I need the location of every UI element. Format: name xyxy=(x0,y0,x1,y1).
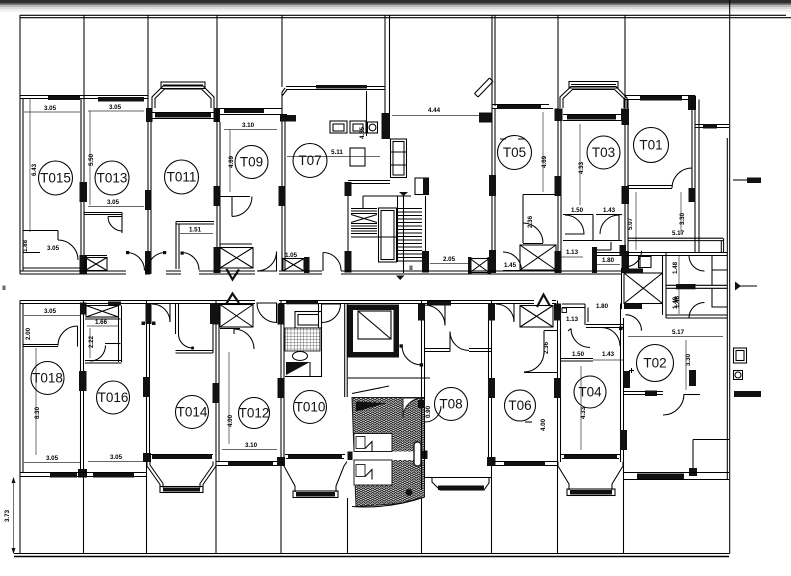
svg-text:T06: T06 xyxy=(508,398,531,413)
label T05 xyxy=(498,136,532,170)
pier T09 left xyxy=(214,186,221,206)
door arc T013 bath xyxy=(108,216,123,218)
label T012 xyxy=(239,398,270,429)
X-box T06 top xyxy=(520,306,553,328)
unit T07 xyxy=(279,85,407,273)
wall T013 mid xyxy=(84,212,122,214)
stair left wall piers xyxy=(345,182,352,196)
svg-text:1.43: 1.43 xyxy=(602,351,615,358)
pier T02 right xyxy=(689,370,696,386)
svg-text:T01: T01 xyxy=(639,138,662,153)
bay window T04 xyxy=(558,462,623,491)
room T02 bottom wall xyxy=(624,391,664,393)
bathroom T010 xyxy=(286,301,318,305)
balcony door T08 to hatch xyxy=(425,406,441,422)
svg-text:T010: T010 xyxy=(295,400,326,415)
unit T05 xyxy=(475,78,559,273)
door pentagon T012 xyxy=(227,294,240,304)
svg-text:4.69: 4.69 xyxy=(541,155,548,168)
door arc T012 inner xyxy=(234,329,254,349)
X-box T09 bottom xyxy=(220,248,253,269)
inner room T05 xyxy=(523,194,558,196)
wall T012/T010 xyxy=(280,301,282,467)
svg-text:2.22: 2.22 xyxy=(88,335,95,348)
unit T013 xyxy=(84,96,148,271)
svg-text:5.17: 5.17 xyxy=(672,230,685,237)
svg-text:4.33: 4.33 xyxy=(578,161,585,174)
label T015 xyxy=(39,161,73,195)
door arcs right rooms xyxy=(689,256,705,272)
door arc T06 left xyxy=(496,304,514,322)
door arc T05 xyxy=(503,252,522,271)
inner rooms T08 xyxy=(425,305,446,326)
svg-text:2.05: 2.05 xyxy=(443,256,456,263)
X-box T016 top xyxy=(108,302,121,306)
svg-text:3.30: 3.30 xyxy=(679,212,686,225)
bathroom T014 xyxy=(146,304,152,325)
unit T014 xyxy=(146,303,217,493)
door arc T014 entry xyxy=(152,304,170,322)
svg-text:T03: T03 xyxy=(592,145,615,160)
closet recess room2 xyxy=(712,288,727,307)
bay window T03 xyxy=(560,87,627,109)
bed 2 xyxy=(354,460,392,485)
wall T08/T06 xyxy=(491,301,493,467)
label T02 xyxy=(637,345,674,382)
balcony curve below terrace xyxy=(352,497,425,507)
svg-text:1.13: 1.13 xyxy=(566,249,579,256)
newel rect xyxy=(379,208,397,262)
svg-text:1.66: 1.66 xyxy=(95,319,108,326)
stair right wall piers xyxy=(415,178,429,195)
T04 recessed entry walls xyxy=(562,304,624,328)
wall T016/T014 xyxy=(146,301,148,477)
svg-text:3.05: 3.05 xyxy=(109,104,122,111)
svg-text:5.50: 5.50 xyxy=(88,153,95,166)
svg-text:T04: T04 xyxy=(578,385,602,400)
window T015 top xyxy=(48,96,80,100)
label T07 xyxy=(293,144,327,178)
room T09 inner wall xyxy=(220,196,250,198)
label T08 xyxy=(435,388,468,421)
toilet xyxy=(293,352,308,361)
central elevator xyxy=(348,305,400,358)
svg-text:1.45: 1.45 xyxy=(504,262,517,269)
svg-text:6.43: 6.43 xyxy=(31,163,38,176)
label T013 xyxy=(95,161,129,195)
top wall T01 xyxy=(625,95,695,97)
right side fixtures xyxy=(734,282,762,398)
wall hatch/T08 xyxy=(421,301,423,491)
svg-text:T016: T016 xyxy=(98,390,129,405)
svg-text:T012: T012 xyxy=(239,406,270,421)
label T09 xyxy=(235,146,268,179)
X-box T05 bottom xyxy=(520,245,556,270)
label T014 xyxy=(176,396,209,429)
bed 1 xyxy=(354,434,392,452)
wall T04/T02 xyxy=(623,318,625,480)
svg-text:1.48: 1.48 xyxy=(672,261,679,274)
window T08 top xyxy=(427,301,451,306)
bottom wall T012 xyxy=(216,461,281,463)
black triangle vanity xyxy=(286,362,310,375)
svg-text:T015: T015 xyxy=(40,171,71,186)
door arc T012 entry xyxy=(257,303,277,323)
svg-text:1.48: 1.48 xyxy=(674,295,681,308)
svg-text:T014: T014 xyxy=(177,405,208,420)
svg-text:T013: T013 xyxy=(97,171,128,186)
piers bay T011 xyxy=(146,108,153,122)
unit T04 xyxy=(558,304,634,496)
flue diagonal T05 xyxy=(475,78,494,97)
svg-text:T08: T08 xyxy=(439,397,462,412)
top wall T09 with window xyxy=(220,108,282,110)
pier T011 left mid xyxy=(145,190,152,210)
entry door arcs T016/T014 xyxy=(142,322,146,326)
under-stair cross xyxy=(351,215,377,223)
G2 balcony dividers bottom band xyxy=(20,466,624,554)
label T011 xyxy=(165,160,199,194)
wall T011/T09 xyxy=(216,110,218,271)
bay window T011 xyxy=(152,86,214,108)
terrace between stair and T05 xyxy=(392,107,491,274)
left dim 3.73 xyxy=(4,477,16,554)
kitchen fixtures T07 xyxy=(330,121,347,133)
door pentagon T06 xyxy=(537,295,550,308)
unit T010 xyxy=(281,301,347,498)
svg-text:T02: T02 xyxy=(643,356,666,371)
unit T015 outer walls xyxy=(20,96,87,275)
label T03 xyxy=(587,136,620,169)
label T06 xyxy=(505,390,536,421)
X window box corridor xyxy=(470,259,489,273)
svg-text:3.05: 3.05 xyxy=(46,455,59,462)
label T018 xyxy=(31,362,64,395)
wall T07/stair xyxy=(348,180,390,182)
unit T06 xyxy=(492,295,562,467)
right wall T01 xyxy=(694,96,696,254)
svg-text:1.88: 1.88 xyxy=(22,239,29,252)
unit T01 xyxy=(597,96,724,274)
wall T06/T04 xyxy=(557,301,559,467)
bottom T016 xyxy=(84,472,147,474)
unit T011 xyxy=(145,82,220,274)
pier T07/court xyxy=(382,113,391,139)
sink counter xyxy=(295,312,322,329)
svg-text:5.17: 5.17 xyxy=(672,329,685,336)
label T010 xyxy=(294,391,327,424)
door arcs corridor end xyxy=(626,251,642,267)
bathroom T01 corner xyxy=(639,256,641,272)
left flight rungs xyxy=(351,209,377,234)
bottom T08 xyxy=(424,477,491,479)
door arc T07 stair side xyxy=(323,253,341,271)
elevator X corridor xyxy=(621,268,623,309)
bay window T014 xyxy=(147,462,216,492)
bottom wall T02 xyxy=(624,472,730,474)
svg-text:3.73: 3.73 xyxy=(4,509,11,522)
door arc T04 entry right xyxy=(602,328,621,347)
door arc hatch entry xyxy=(403,398,423,418)
corridor bottom wall xyxy=(20,301,556,304)
corridor end rooms right xyxy=(597,245,727,318)
shower grid xyxy=(285,328,320,351)
window band T03 xyxy=(567,115,616,120)
door pentagon T09 corridor xyxy=(227,269,240,280)
svg-text:4.44: 4.44 xyxy=(428,107,441,114)
svg-text:1.50: 1.50 xyxy=(572,351,585,358)
svg-text:3.10: 3.10 xyxy=(245,442,258,449)
triangle mark hatch xyxy=(356,402,387,412)
window band T011 xyxy=(155,113,211,118)
G1 terrace dividers top band xyxy=(20,15,625,113)
door arc T011 entry xyxy=(163,251,166,254)
label T04 xyxy=(574,376,606,408)
wall T018/T016 xyxy=(83,301,85,477)
right building edge long vertical xyxy=(729,0,731,554)
top dark header bar xyxy=(0,0,791,4)
svg-text:T09: T09 xyxy=(240,155,263,170)
svg-text:1.43: 1.43 xyxy=(603,207,616,214)
svg-text:5.07: 5.07 xyxy=(627,217,634,230)
bottom boundary double line xyxy=(14,553,729,555)
pier T015/T013 mid xyxy=(80,182,88,202)
door arc T013 entry xyxy=(126,251,129,254)
svg-text:3.10: 3.10 xyxy=(242,122,255,129)
svg-text:0.90: 0.90 xyxy=(425,405,432,418)
label T01 xyxy=(634,128,669,163)
unit T03 xyxy=(555,82,630,274)
door arc T010 entry xyxy=(322,304,341,323)
top wall T05 xyxy=(492,104,549,106)
room T01 bottom wall xyxy=(628,185,672,187)
svg-text:1.51: 1.51 xyxy=(189,227,202,234)
white band between beds xyxy=(349,452,424,461)
wall T014/T012 xyxy=(215,301,217,467)
walls T05 sides xyxy=(491,104,493,271)
arrow markers xyxy=(399,192,408,196)
window T013 top xyxy=(98,97,144,102)
door arc T04 entry left xyxy=(571,329,590,348)
inner room T06 xyxy=(544,330,557,332)
label T016 xyxy=(97,381,130,414)
X-box T013 bottom xyxy=(85,255,107,257)
stair top line xyxy=(363,195,411,197)
svg-text:II: II xyxy=(2,285,6,292)
wall T05/T03 xyxy=(557,96,559,271)
svg-text:6.30: 6.30 xyxy=(34,406,41,419)
svg-text:T05: T05 xyxy=(503,145,526,160)
unit T018 xyxy=(20,301,87,478)
wall T013/T011 xyxy=(147,96,149,272)
svg-text:3.05: 3.05 xyxy=(110,454,123,461)
door arc T07 entry xyxy=(257,252,277,272)
corridor top wall xyxy=(20,271,621,274)
svg-text:3.05: 3.05 xyxy=(47,245,60,252)
wall T015/T013 xyxy=(83,96,85,272)
svg-text:4.00: 4.00 xyxy=(227,414,234,427)
hatched roof terrace xyxy=(348,398,428,507)
unit T08 xyxy=(418,301,496,491)
top wall T07 xyxy=(286,86,385,88)
unit T012 xyxy=(213,301,286,467)
svg-text:3.05: 3.05 xyxy=(44,308,57,315)
svg-text:1.80: 1.80 xyxy=(602,257,615,264)
stairwell xyxy=(345,178,430,280)
lounge chair xyxy=(414,442,421,466)
svg-text:T07: T07 xyxy=(298,153,321,168)
side terrace right xyxy=(695,100,761,254)
room T02 corner xyxy=(693,439,729,441)
T015 interior xyxy=(29,99,31,232)
X-box T012 top xyxy=(220,305,253,328)
wall T03/T01 xyxy=(624,96,626,271)
bottom bay T010 xyxy=(281,462,347,493)
svg-text:5.11: 5.11 xyxy=(331,149,343,156)
svg-text:T018: T018 xyxy=(32,371,63,386)
svg-text:1.50: 1.50 xyxy=(571,207,584,214)
top boundary double line xyxy=(20,14,786,16)
closet T015 bottom xyxy=(23,230,58,232)
svg-text:1.80: 1.80 xyxy=(596,303,609,310)
wall T09/T07 xyxy=(281,92,283,271)
svg-text:4.69: 4.69 xyxy=(228,155,235,168)
closet T016 xyxy=(118,306,120,363)
unit T016 xyxy=(84,301,156,478)
mid landing line xyxy=(351,236,397,238)
pier T07 left xyxy=(279,186,286,206)
svg-text:4.85: 4.85 xyxy=(359,126,366,139)
svg-text:3.05: 3.05 xyxy=(107,199,120,206)
unit T02 xyxy=(624,295,730,479)
right flight rungs xyxy=(398,209,422,262)
svg-text:1.13: 1.13 xyxy=(566,316,579,323)
bottom wall T018 xyxy=(20,472,84,474)
bottom wall T06 xyxy=(492,461,558,463)
svg-text:1.05: 1.05 xyxy=(285,252,298,259)
svg-text:4.00: 4.00 xyxy=(540,418,547,431)
svg-text:3.05: 3.05 xyxy=(44,105,57,112)
closet T011 bottom xyxy=(176,221,214,223)
svg-text:2.00: 2.00 xyxy=(25,327,32,340)
svg-text:T011: T011 xyxy=(167,170,197,185)
landing below elevator xyxy=(345,303,430,397)
cabinet T07 right xyxy=(391,139,407,178)
unit T09 xyxy=(214,109,288,280)
planter dot xyxy=(406,489,413,496)
closet recess room1 xyxy=(712,256,727,286)
